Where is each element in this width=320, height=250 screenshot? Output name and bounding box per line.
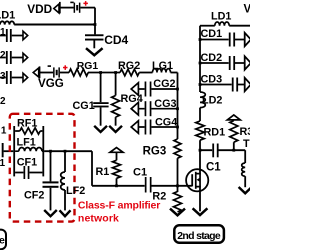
svg-text:LD1: LD1	[211, 10, 231, 22]
svg-text:LF2: LF2	[66, 185, 85, 197]
svg-text:CG4: CG4	[155, 116, 177, 128]
svg-text:1: 1	[0, 27, 6, 38]
svg-text:TL: TL	[243, 138, 250, 150]
svg-text:RF1: RF1	[17, 117, 37, 129]
svg-text:LD1: LD1	[0, 9, 15, 21]
svg-text:LG1: LG1	[152, 60, 173, 72]
svg-text:2: 2	[0, 96, 6, 107]
svg-text:2nd stage: 2nd stage	[177, 230, 221, 242]
svg-text:CF2: CF2	[24, 190, 44, 202]
svg-text:R1: R1	[96, 166, 110, 178]
svg-text:CG2: CG2	[153, 78, 175, 90]
svg-text:CD3: CD3	[201, 73, 223, 85]
svg-text:RD1: RD1	[204, 126, 226, 138]
svg-text:RG4: RG4	[121, 93, 143, 105]
svg-text:R3: R3	[240, 126, 251, 138]
svg-text:network: network	[78, 213, 119, 225]
svg-text:C1: C1	[133, 167, 147, 179]
svg-text:3: 3	[0, 71, 6, 82]
svg-text:CD1: CD1	[201, 28, 223, 40]
svg-text:RG3: RG3	[143, 146, 167, 158]
svg-text:LF1: LF1	[17, 137, 36, 149]
svg-text:CD2: CD2	[201, 52, 223, 64]
svg-text:LD2: LD2	[202, 95, 222, 107]
svg-text:1st stage: 1st stage	[0, 234, 5, 246]
svg-text:RG1: RG1	[77, 61, 99, 72]
svg-text:1: 1	[0, 158, 6, 169]
svg-text:Class-F amplifier: Class-F amplifier	[78, 199, 160, 211]
svg-text:1: 1	[1, 126, 7, 137]
svg-text:RG2: RG2	[118, 60, 140, 72]
svg-text:C1: C1	[206, 161, 221, 173]
svg-text:VDD: VDD	[27, 2, 52, 16]
svg-text:2: 2	[0, 50, 6, 61]
svg-text:CG3: CG3	[154, 98, 176, 110]
svg-text:CD4: CD4	[104, 33, 128, 47]
svg-text:VGG: VGG	[38, 77, 64, 90]
svg-text:CG1: CG1	[73, 100, 95, 112]
svg-text:VD: VD	[244, 4, 251, 16]
svg-text:CF1: CF1	[17, 157, 37, 169]
